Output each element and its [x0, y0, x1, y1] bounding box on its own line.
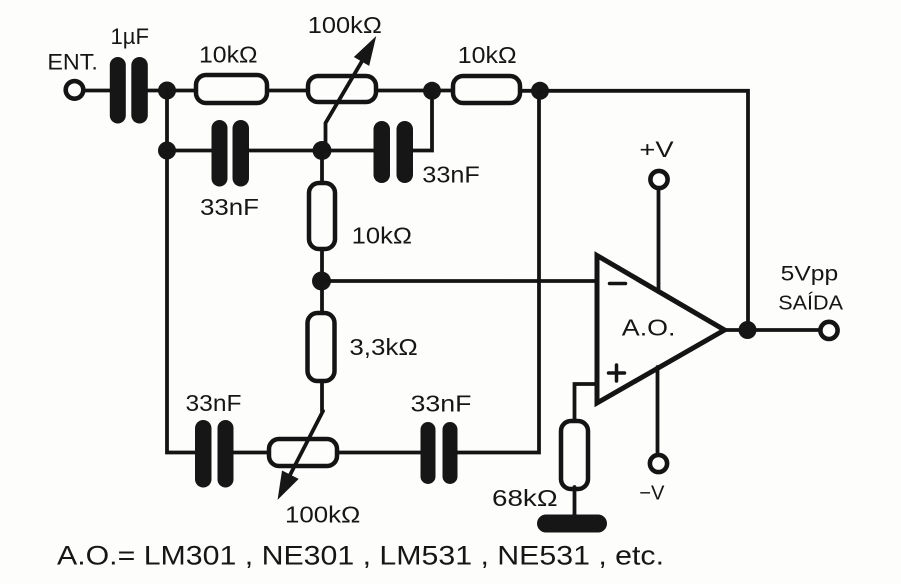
svg-text:SAÍDA: SAÍDA — [778, 292, 843, 315]
wire node G to op-amp minus input — [322, 279, 598, 283]
wire P1 to node B — [376, 89, 453, 93]
+V supply wire — [657, 189, 661, 292]
wire node E to C2 — [167, 149, 212, 153]
capacitor C5 33nF — [421, 422, 458, 484]
svg-text:+V: +V — [639, 137, 674, 162]
svg-text:100kΩ: 100kΩ — [308, 12, 382, 38]
+V terminal — [650, 171, 667, 188]
potentiometer P1 body 100k — [308, 76, 376, 102]
svg-text:33nF: 33nF — [186, 390, 242, 416]
capacitor C3 33nF — [374, 121, 414, 183]
capacitor C1 1uF — [110, 57, 148, 124]
node F junction — [313, 141, 332, 160]
resistor R5 68k vertical — [561, 421, 588, 489]
resistor R2 10k — [453, 76, 520, 103]
wire R4 down to wiper of P2 — [320, 381, 324, 411]
potentiometer P1 wiper arrow — [326, 60, 364, 148]
resistor R4 3.3k vertical — [308, 313, 335, 381]
op-amp U1 triangle — [597, 256, 725, 404]
capacitor C2 33nF — [212, 120, 250, 187]
node B junction — [423, 82, 441, 100]
svg-text:A.O.= LM301 , NE301 , LM531 ,: A.O.= LM301 , NE301 , LM531 , NE531 , et… — [57, 541, 664, 571]
wire C5 right then up to node C — [456, 91, 539, 453]
wire C2 to node F — [248, 149, 322, 153]
output terminal — [820, 322, 837, 339]
svg-text:1µF: 1µF — [111, 24, 150, 49]
svg-text:5Vpp: 5Vpp — [781, 263, 839, 286]
svg-text:33nF: 33nF — [422, 162, 480, 188]
svg-text:10kΩ: 10kΩ — [199, 42, 258, 68]
svg-text:10kΩ: 10kΩ — [458, 42, 517, 68]
capacitor C4 33nF — [195, 420, 234, 488]
svg-text:33nF: 33nF — [411, 391, 472, 417]
ground symbol — [537, 515, 607, 533]
node A junction — [158, 82, 176, 100]
op-amp plus sign — [609, 365, 625, 381]
svg-text:10kΩ: 10kΩ — [352, 222, 412, 248]
svg-text:33nF: 33nF — [200, 194, 259, 220]
wire C4 to P2 — [234, 451, 269, 455]
svg-text:3,3kΩ: 3,3kΩ — [349, 334, 417, 360]
wire plus input down to R5 — [575, 384, 598, 421]
input terminal ENT. — [66, 81, 84, 99]
wire feedback top: node C right then down to node D — [540, 91, 748, 330]
wire P2 to C5 — [337, 451, 422, 455]
resistor R3 10k vertical — [309, 183, 335, 249]
wire op-amp output to terminal — [724, 328, 819, 332]
wire node G down to R4 — [320, 281, 324, 313]
svg-text:ENT.: ENT. — [47, 50, 98, 75]
node C junction — [531, 82, 549, 100]
wire R2 to node C — [520, 89, 540, 93]
wire node F down to R3 — [320, 151, 324, 184]
svg-text:68kΩ: 68kΩ — [492, 485, 558, 511]
node E junction — [158, 142, 176, 160]
wire R1 to P1 — [267, 89, 308, 93]
wire C3 right then up to node B — [412, 91, 432, 151]
wire R5 to ground — [573, 487, 577, 515]
svg-text:100kΩ: 100kΩ — [285, 502, 360, 528]
svg-text:−V: −V — [639, 482, 665, 504]
potentiometer P2 wiper arrow — [290, 411, 323, 475]
wire node F to C3 — [322, 149, 374, 153]
wire C1 to node A — [148, 89, 194, 93]
op-amp minus sign — [610, 282, 626, 286]
wire node A down left rail to bottom row then to C4 — [167, 91, 195, 453]
node D output junction — [739, 321, 757, 339]
potentiometer P2 body 100k — [269, 439, 337, 466]
svg-text:A.O.: A.O. — [622, 315, 676, 341]
-V terminal — [650, 455, 667, 472]
-V supply wire — [656, 367, 660, 452]
resistor R1 10k — [196, 75, 267, 103]
wire input to C1 — [85, 89, 111, 93]
node G junction — [312, 272, 331, 291]
wire R3 to node G — [320, 249, 324, 282]
